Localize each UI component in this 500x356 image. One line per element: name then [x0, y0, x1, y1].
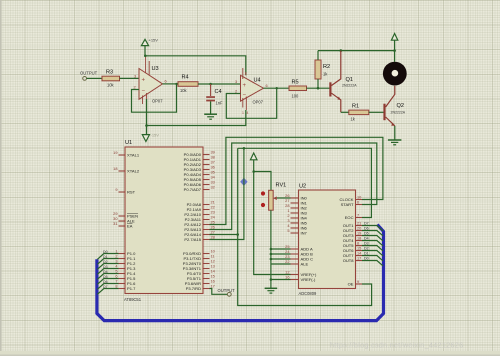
- svg-text:OP07: OP07: [253, 100, 264, 105]
- svg-text:R5: R5: [292, 80, 299, 86]
- svg-text:D1: D1: [364, 252, 369, 256]
- svg-text:10k: 10k: [180, 88, 188, 93]
- svg-text:+15V: +15V: [149, 38, 159, 43]
- wire +V rail top right: [318, 41, 395, 62]
- svg-text:C4: C4: [215, 89, 222, 95]
- svg-text:D4: D4: [103, 270, 108, 274]
- junction ADD B: [270, 253, 273, 256]
- svg-text:U1: U1: [125, 140, 132, 146]
- junction ADD C: [270, 258, 273, 261]
- junction ADD A: [270, 248, 273, 251]
- wire R1 to Q2 base: [369, 111, 384, 113]
- svg-text:XTAL2: XTAL2: [127, 169, 140, 174]
- junction -15V node: [145, 124, 148, 127]
- junction U4 output/feedback: [276, 87, 278, 89]
- svg-text:2: 2: [134, 85, 136, 90]
- svg-text:D6: D6: [364, 227, 369, 231]
- svg-text:D4: D4: [364, 237, 369, 241]
- svg-text:100: 100: [292, 94, 300, 99]
- svg-text:U4: U4: [254, 78, 261, 84]
- transistor Q1: [329, 51, 357, 113]
- svg-text:9: 9: [115, 187, 117, 192]
- wire START net (U1 P2.5 to U2 START): [210, 143, 377, 230]
- svg-text:1: 1: [242, 111, 244, 115]
- transistor Q2: [383, 86, 405, 140]
- junction speaker top: [393, 49, 396, 52]
- svg-text:17: 17: [357, 256, 361, 261]
- svg-text:AT89C51: AT89C51: [124, 297, 142, 302]
- svg-text:EOC: EOC: [345, 215, 354, 220]
- wire R5 to Q1 base: [307, 87, 330, 89]
- svg-text:-15V: -15V: [151, 133, 160, 138]
- ground below Q2: [388, 140, 402, 145]
- svg-text:R3: R3: [106, 70, 113, 76]
- ADC U2 ADC0809: [299, 184, 356, 297]
- svg-text:httрs://blog.csdn.net/weixin_4: httрs://blog.csdn.net/weixin_44212626: [330, 341, 463, 350]
- svg-text:D7: D7: [103, 285, 108, 289]
- speaker LS1: [383, 62, 407, 86]
- svg-text:1k: 1k: [351, 117, 356, 122]
- blue marker diamond: [240, 178, 247, 186]
- svg-text:D3: D3: [103, 265, 108, 269]
- svg-text:10k: 10k: [107, 83, 115, 88]
- terminal OUTPUT (U1 P3.7): [210, 288, 236, 296]
- svg-text:2N2222A: 2N2222A: [342, 84, 357, 88]
- resistor R2: [315, 51, 330, 89]
- wire R3 to U3 plus input: [120, 74, 140, 79]
- svg-text:XTAL1: XTAL1: [127, 153, 140, 158]
- junction U3 output/feedback: [175, 83, 177, 85]
- svg-text:32: 32: [211, 185, 215, 190]
- svg-text:R1: R1: [352, 104, 359, 110]
- svg-text:OUTPUT: OUTPUT: [218, 288, 236, 293]
- junction EOC rail P2.7: [243, 147, 246, 150]
- svg-text:U3: U3: [152, 66, 159, 72]
- U2 left pin stubs: [285, 193, 317, 282]
- wire U3 output to R4: [163, 79, 179, 84]
- wire CLOCK net (U1 P2.4 to U2 CLOCK): [210, 137, 383, 224]
- svg-text:1k: 1k: [323, 72, 328, 77]
- svg-text:6: 6: [266, 83, 268, 88]
- svg-text:31: 31: [113, 221, 117, 226]
- svg-text:EA: EA: [127, 224, 133, 229]
- svg-text:P1.7: P1.7: [127, 286, 136, 291]
- svg-text:P2.7/A15: P2.7/A15: [184, 237, 201, 242]
- wire OE net vertical (P2.6 down to OE rail): [238, 148, 372, 305]
- junction power split: [252, 170, 255, 173]
- bus D0-D7 (blue): [97, 225, 384, 321]
- svg-text:RV1: RV1: [276, 183, 287, 189]
- wires U2 OUT1-OUT8 to bus: [362, 222, 383, 266]
- wire power to RV1 top and VREF+: [254, 172, 291, 275]
- watermark: [330, 341, 463, 350]
- junction VREF-: [270, 278, 273, 281]
- potentiometer RV1: [261, 183, 286, 211]
- svg-text:−: −: [142, 89, 146, 95]
- svg-text:4: 4: [247, 111, 249, 115]
- svg-text:3: 3: [235, 79, 237, 84]
- wire U4 output to R5: [264, 83, 290, 88]
- svg-text:1nF: 1nF: [216, 101, 224, 106]
- U1 right pin stubs: [183, 150, 216, 291]
- svg-text:VREF(-): VREF(-): [301, 277, 316, 282]
- svg-text:ALE: ALE: [301, 262, 309, 267]
- junction P2.6: [236, 233, 239, 236]
- svg-text:U2: U2: [299, 184, 306, 190]
- svg-text:5: 5: [287, 228, 289, 233]
- svg-text:6: 6: [357, 200, 359, 205]
- svg-text:19: 19: [113, 150, 117, 155]
- junction C4 tap: [209, 83, 212, 86]
- capacitor C4: [206, 84, 223, 114]
- svg-text:18: 18: [113, 166, 117, 171]
- svg-text:IN7: IN7: [301, 231, 308, 236]
- wire RV1 bottom to ground with ADD taps: [271, 210, 291, 288]
- svg-text:2N2222A: 2N2222A: [391, 111, 406, 115]
- junction Q1 collector rail: [340, 49, 343, 52]
- wire P2.7 up to EOC rail: [210, 148, 244, 239]
- wires P1.0-P1.7 to bus: [97, 250, 118, 294]
- svg-text:OP07: OP07: [152, 99, 163, 104]
- power +15V (top left): [141, 38, 158, 46]
- op-amp U4: [241, 68, 264, 115]
- svg-text:OUTPUT: OUTPUT: [80, 71, 98, 76]
- op-amp U3: [139, 56, 163, 104]
- wire U4 feedback loop: [226, 88, 276, 118]
- svg-text:D1: D1: [103, 255, 108, 259]
- svg-text:OUT8: OUT8: [343, 258, 355, 263]
- microcontroller U1 AT89C51: [124, 140, 203, 302]
- svg-text:P3.7/RD: P3.7/RD: [186, 286, 201, 291]
- svg-text:D2: D2: [364, 247, 369, 251]
- svg-text:+: +: [243, 83, 247, 89]
- resistor R5: [289, 80, 307, 99]
- wire R4 to U4 plus input: [198, 79, 241, 84]
- wire RV1 wiper to IN0: [277, 197, 291, 199]
- svg-text:D0: D0: [103, 250, 108, 254]
- svg-text:Q1: Q1: [346, 77, 353, 83]
- svg-text:P0.7/AD7: P0.7/AD7: [184, 187, 202, 192]
- resistor R3: [102, 70, 120, 88]
- svg-text:R4: R4: [182, 75, 189, 81]
- svg-text:D5: D5: [103, 275, 108, 279]
- svg-text:D7: D7: [364, 222, 369, 226]
- ground below RV1: [265, 288, 278, 293]
- wire Q1 emitter to R1: [341, 111, 349, 113]
- svg-text:D0: D0: [364, 257, 369, 261]
- svg-text:RST: RST: [127, 190, 136, 195]
- svg-text:ADC0809: ADC0809: [299, 291, 317, 296]
- svg-text:D2: D2: [103, 260, 108, 264]
- wire OUTPUT to R3: [87, 77, 103, 79]
- wire -15V rail U3 pin4 to U4 pin4: [147, 99, 246, 135]
- resistor R1: [349, 104, 369, 122]
- terminal OUTPUT (left input): [80, 71, 98, 81]
- wire EOC net (U1 P2.6 to U2 EOC): [210, 148, 372, 234]
- U2 right pin stubs: [340, 195, 363, 287]
- svg-text:+: +: [142, 78, 146, 84]
- svg-text:3: 3: [134, 74, 136, 79]
- svg-text:6: 6: [165, 79, 167, 84]
- power arrow above RV1: [250, 153, 257, 172]
- svg-text:D5: D5: [364, 232, 369, 236]
- wire U3 feedback loop: [132, 84, 177, 112]
- svg-text:Q2: Q2: [397, 103, 404, 109]
- svg-text:D3: D3: [364, 242, 369, 246]
- svg-text:D6: D6: [103, 280, 108, 284]
- power -15V (arrow down): [142, 133, 159, 142]
- svg-text:R2: R2: [323, 64, 330, 70]
- svg-text:7: 7: [357, 213, 359, 218]
- U1 left pin stubs: [113, 150, 140, 291]
- power arrow (top right): [391, 34, 397, 41]
- ground below C4: [204, 114, 217, 119]
- wire +15V rail to U3 and U4 supply: [144, 46, 246, 76]
- svg-text:START: START: [341, 202, 354, 207]
- svg-text:2: 2: [235, 89, 237, 94]
- junction R2 bottom: [317, 87, 320, 90]
- svg-text:9: 9: [357, 279, 359, 284]
- svg-text:OE: OE: [348, 282, 354, 287]
- resistor R4: [178, 75, 198, 94]
